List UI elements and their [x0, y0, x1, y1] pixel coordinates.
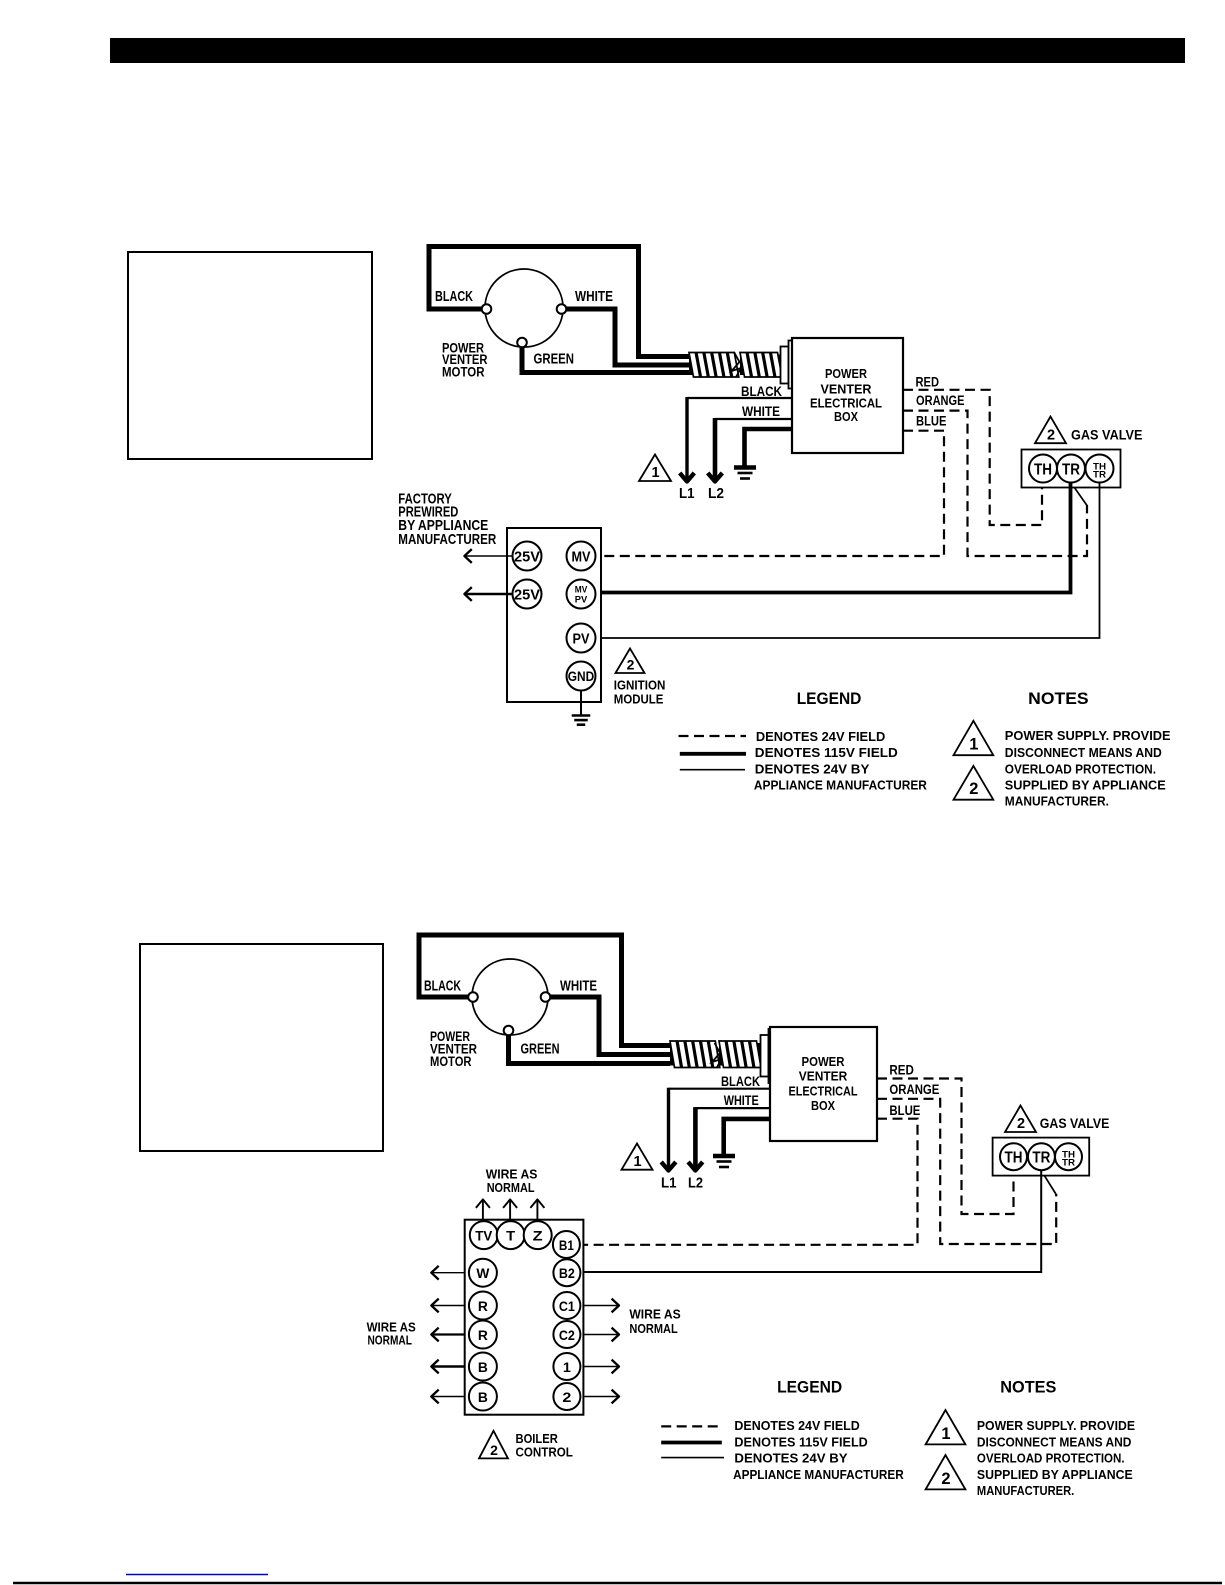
- svg-text:TR: TR: [1093, 470, 1107, 480]
- svg-text:1: 1: [651, 465, 659, 481]
- svg-text:L1: L1: [679, 485, 695, 502]
- svg-text:1: 1: [563, 1360, 572, 1375]
- wire BLACK from motor M2 (115V): [419, 935, 670, 1046]
- svg-text:DENOTES 24V FIELD: DENOTES 24V FIELD: [756, 730, 885, 744]
- wire ground from electrical box 2 (115V): [724, 1119, 770, 1154]
- ground symbol ignition module: [572, 714, 591, 717]
- wire TH/TR to PV (24V appliance): [601, 482, 1100, 638]
- boiler terminal B lower: [469, 1383, 497, 1411]
- svg-text:DENOTES 24V FIELD: DENOTES 24V FIELD: [734, 1419, 859, 1433]
- gas valve 1 terminal TR: [1057, 455, 1085, 483]
- svg-text:WIRE AS: WIRE AS: [486, 1167, 538, 1181]
- svg-text:BLACK: BLACK: [435, 289, 473, 305]
- svg-text:IGNITION: IGNITION: [614, 678, 666, 692]
- note triangle 1 diagram 1 supply: [639, 455, 671, 482]
- boiler terminal R lower: [469, 1321, 497, 1349]
- legend thin sample 2: [661, 1457, 724, 1459]
- svg-text:L1: L1: [661, 1174, 677, 1191]
- wire BLACK supply to L1 (115V): [687, 397, 792, 399]
- svg-text:1: 1: [633, 1154, 641, 1170]
- note triangle 2 boiler control: [479, 1431, 508, 1459]
- wire BLUE dashed 24V field: box2 to boiler control B1: [583, 1119, 917, 1245]
- wire WHITE from motor M2 (115V): [546, 997, 671, 1055]
- svg-text:TR: TR: [1062, 1158, 1076, 1168]
- svg-text:GREEN: GREEN: [534, 352, 575, 368]
- wire RED dashed 24V field: box1 to gas valve TH: [903, 390, 1042, 525]
- arrow factory prewired lower (25V): [465, 593, 513, 595]
- wire GREEN from motor M2 (115V): [509, 1031, 671, 1064]
- svg-text:GND: GND: [568, 669, 595, 684]
- svg-text:WHITE: WHITE: [560, 979, 597, 995]
- svg-text:APPLIANCE MANUFACTURER: APPLIANCE MANUFACTURER: [754, 779, 927, 793]
- motor M2 terminal left: [468, 992, 478, 1002]
- svg-text:POWER: POWER: [802, 1055, 845, 1069]
- wire ORANGE dashed 24V field: box2 toward gas valve TR: [877, 1099, 1056, 1244]
- svg-text:MANUFACTURER.: MANUFACTURER.: [1005, 795, 1109, 809]
- svg-text:BLACK: BLACK: [741, 384, 782, 399]
- svg-text:ORANGE: ORANGE: [889, 1082, 939, 1097]
- notes triangle 1 diagram 2: [926, 1410, 966, 1444]
- gas valve 1 terminal TH: [1029, 455, 1057, 483]
- svg-text:2: 2: [969, 780, 978, 798]
- wire WHITE supply to L2 diagram 2 (115V): [695, 1107, 770, 1109]
- svg-text:NORMAL: NORMAL: [487, 1181, 535, 1195]
- legend thick sample 1: [680, 752, 746, 756]
- svg-text:MOTOR: MOTOR: [430, 1054, 472, 1069]
- ignition module terminal 25V upper: [513, 542, 542, 571]
- wire TR to B2 (24V appliance): [583, 1170, 1041, 1272]
- svg-text:B2: B2: [559, 1266, 575, 1281]
- power venter electrical box 1: [792, 338, 903, 453]
- svg-text:ELECTRICAL: ELECTRICAL: [810, 396, 882, 410]
- svg-text:R: R: [478, 1327, 488, 1343]
- svg-text:GAS VALVE: GAS VALVE: [1040, 1116, 1110, 1131]
- svg-text:DENOTES 24V BY: DENOTES 24V BY: [734, 1452, 848, 1466]
- boiler terminal W: [469, 1259, 497, 1287]
- svg-text:DISCONNECT MEANS AND: DISCONNECT MEANS AND: [1005, 746, 1162, 760]
- arrow wire-as-normal up TV: [482, 1200, 484, 1220]
- svg-text:ELECTRICAL: ELECTRICAL: [789, 1084, 858, 1098]
- svg-text:PV: PV: [573, 631, 590, 647]
- svg-text:ORANGE: ORANGE: [916, 393, 965, 408]
- svg-text:TH: TH: [1034, 462, 1052, 479]
- gas valve 2 terminal TH: [1000, 1143, 1027, 1170]
- svg-text:MOTOR: MOTOR: [442, 364, 485, 379]
- svg-text:LEGEND: LEGEND: [797, 689, 862, 708]
- flexible conduit diagram 1 segment A: [689, 355, 734, 376]
- svg-text:BLUE: BLUE: [916, 414, 947, 429]
- arrow left R lower: [432, 1333, 465, 1335]
- svg-text:BLUE: BLUE: [889, 1103, 920, 1118]
- notes triangle 2 diagram 2: [926, 1455, 966, 1489]
- boiler terminal B upper: [469, 1353, 497, 1381]
- wire BLACK from motor M1 (115V): [429, 247, 689, 357]
- flexible conduit diagram 2 segment A: [670, 1043, 713, 1066]
- svg-text:RED: RED: [916, 373, 940, 389]
- svg-text:25V: 25V: [514, 587, 540, 603]
- wire ORANGE dashed 24V field: box1 toward gas valve TR: [903, 411, 1087, 556]
- arrow L2 diagram 2: [693, 1107, 698, 1168]
- footer rule: [13, 1582, 1222, 1584]
- svg-text:RED: RED: [889, 1062, 914, 1078]
- svg-text:MV: MV: [575, 585, 588, 595]
- svg-text:2: 2: [627, 657, 635, 673]
- svg-text:APPLIANCE MANUFACTURER: APPLIANCE MANUFACTURER: [733, 1468, 904, 1482]
- svg-text:POWER SUPPLY. PROVIDE: POWER SUPPLY. PROVIDE: [977, 1419, 1135, 1433]
- svg-text:MANUFACTURER.: MANUFACTURER.: [977, 1484, 1074, 1498]
- svg-text:B: B: [478, 1359, 488, 1375]
- arrow right C2: [583, 1334, 618, 1336]
- arrow left W: [432, 1272, 465, 1274]
- svg-text:WHITE: WHITE: [724, 1093, 759, 1108]
- svg-text:Z: Z: [533, 1227, 544, 1243]
- svg-text:PV: PV: [575, 594, 588, 604]
- power venter electrical box 2: [770, 1027, 877, 1141]
- svg-text:T: T: [506, 1227, 515, 1243]
- svg-text:25V: 25V: [514, 549, 540, 565]
- wire GND to ground: [580, 691, 582, 716]
- boiler terminal R upper: [469, 1292, 497, 1320]
- boiler terminal 2: [553, 1383, 580, 1410]
- svg-text:TH: TH: [1005, 1150, 1023, 1167]
- svg-text:NORMAL: NORMAL: [629, 1322, 678, 1336]
- svg-text:B: B: [478, 1389, 488, 1405]
- boiler terminal T: [497, 1221, 525, 1249]
- ground symbol at supply 2: [713, 1154, 735, 1159]
- gas valve 2 body: [993, 1138, 1090, 1176]
- conduit connector at electrical box 2: [761, 1035, 769, 1077]
- arrow left R upper: [432, 1305, 465, 1307]
- svg-text:2: 2: [941, 1470, 950, 1488]
- svg-text:NOTES: NOTES: [1000, 1377, 1056, 1396]
- svg-text:2: 2: [490, 1442, 498, 1458]
- boiler terminal 1: [553, 1353, 580, 1380]
- svg-text:MV: MV: [572, 549, 591, 565]
- wire TR to MV/PV (thick): [601, 482, 1071, 593]
- svg-text:WHITE: WHITE: [742, 404, 780, 419]
- arrow right 1: [583, 1366, 618, 1368]
- conduit tear mark diagram 2: [712, 1043, 722, 1068]
- svg-text:DENOTES 115V FIELD: DENOTES 115V FIELD: [734, 1435, 867, 1449]
- svg-text:LEGEND: LEGEND: [777, 1377, 842, 1396]
- svg-text:VENTER: VENTER: [821, 382, 872, 396]
- svg-text:MANUFACTURER: MANUFACTURER: [398, 531, 496, 548]
- ignition module terminal PV: [567, 624, 596, 653]
- legend dashed sample 1: [679, 735, 747, 737]
- power venter motor M2 body: [472, 959, 548, 1035]
- svg-text:CONTROL: CONTROL: [516, 1446, 574, 1460]
- svg-text:BOX: BOX: [834, 410, 859, 424]
- motor M2 terminal bottom: [504, 1026, 514, 1036]
- svg-text:POWER SUPPLY. PROVIDE: POWER SUPPLY. PROVIDE: [1005, 729, 1171, 743]
- svg-text:GREEN: GREEN: [521, 1042, 560, 1058]
- conduit tear mark diagram 1: [732, 352, 742, 377]
- svg-text:L2: L2: [708, 485, 724, 502]
- boiler terminal Z: [524, 1221, 552, 1249]
- arrow L1 diagram 2: [667, 1088, 670, 1169]
- svg-text:1: 1: [941, 1425, 950, 1443]
- svg-text:1: 1: [969, 736, 978, 754]
- arrow factory prewired upper (25V): [465, 555, 513, 557]
- svg-text:SUPPLIED BY APPLIANCE: SUPPLIED BY APPLIANCE: [1005, 779, 1166, 793]
- conduit connector at electrical box 1: [781, 347, 789, 384]
- boiler terminal TV: [470, 1221, 498, 1249]
- notes triangle 1 diagram 1: [954, 721, 994, 755]
- ignition module terminal 25V lower: [513, 580, 542, 609]
- note box (blank) diagram 1: [128, 252, 372, 459]
- svg-text:GAS VALVE: GAS VALVE: [1071, 428, 1143, 443]
- gas valve 2 terminal TH/TR: [1055, 1143, 1082, 1170]
- ignition module terminal MV: [567, 542, 596, 571]
- svg-text:NOTES: NOTES: [1028, 689, 1088, 708]
- wire GREEN from motor M1 (115V): [522, 342, 689, 373]
- svg-text:WIRE AS: WIRE AS: [367, 1321, 416, 1335]
- arrow left B lower: [432, 1396, 465, 1398]
- svg-text:L2: L2: [688, 1174, 703, 1191]
- svg-text:C2: C2: [559, 1328, 575, 1343]
- gas valve 2 terminal TR: [1028, 1143, 1055, 1170]
- legend thin sample 1: [680, 769, 745, 771]
- arrow right C1: [583, 1305, 618, 1307]
- wire WHITE supply to L2 (115V): [715, 418, 792, 420]
- arrow left B upper: [432, 1365, 465, 1367]
- note triangle 2 at gas valve 2: [1005, 1106, 1036, 1133]
- legend thick sample 2: [661, 1441, 722, 1445]
- svg-text:2: 2: [1047, 427, 1055, 443]
- note triangle 2 ignition module: [616, 649, 645, 674]
- footer hyperlink line: [126, 1574, 268, 1576]
- wire RED dashed 24V field: box2 to gas valve TH: [877, 1079, 1014, 1215]
- arrow right 2: [583, 1396, 618, 1398]
- notes triangle 2 diagram 1: [954, 766, 994, 800]
- flexible conduit diagram 1 segment B: [740, 355, 781, 376]
- svg-text:DENOTES 115V FIELD: DENOTES 115V FIELD: [755, 746, 898, 760]
- boiler terminal C1: [553, 1292, 580, 1319]
- ground symbol at supply 1: [734, 465, 756, 470]
- svg-text:B1: B1: [559, 1238, 574, 1253]
- svg-text:W: W: [476, 1265, 490, 1281]
- svg-text:BLACK: BLACK: [721, 1074, 760, 1089]
- boiler terminal C2: [553, 1321, 580, 1348]
- arrow L2 diagram 1: [713, 418, 718, 480]
- svg-text:BOX: BOX: [811, 1099, 836, 1113]
- svg-text:OVERLOAD PROTECTION.: OVERLOAD PROTECTION.: [977, 1452, 1125, 1466]
- ignition module terminal GND: [567, 662, 596, 691]
- boiler terminal B1: [553, 1231, 580, 1258]
- note box (blank) diagram 2: [140, 944, 383, 1151]
- svg-text:R: R: [478, 1298, 488, 1314]
- svg-text:2: 2: [562, 1390, 571, 1405]
- gas valve 1 body: [1022, 450, 1121, 488]
- svg-text:TV: TV: [475, 1227, 493, 1243]
- motor M1 terminal bottom: [517, 338, 527, 348]
- legend dashed sample 2: [661, 1425, 722, 1427]
- wire BLUE dashed 24V field: box1 to ignition module MV: [601, 431, 944, 556]
- wire BLACK supply to L1 diagram 2 (115V): [669, 1088, 771, 1090]
- svg-text:BOILER: BOILER: [516, 1432, 558, 1446]
- arrow L1 diagram 1: [685, 397, 688, 480]
- arrow wire-as-normal up Z: [536, 1200, 538, 1220]
- boiler terminal B2: [553, 1259, 580, 1286]
- svg-text:2: 2: [1017, 1116, 1025, 1132]
- svg-text:OVERLOAD PROTECTION.: OVERLOAD PROTECTION.: [1005, 762, 1156, 776]
- svg-text:BLACK: BLACK: [424, 979, 461, 995]
- svg-text:WHITE: WHITE: [575, 289, 613, 305]
- svg-text:SUPPLIED BY APPLIANCE: SUPPLIED BY APPLIANCE: [977, 1468, 1133, 1482]
- ignition module terminal MV/PV: [567, 580, 596, 609]
- ignition module box: [507, 528, 601, 702]
- note triangle 2 at gas valve 1: [1035, 417, 1066, 444]
- svg-text:TR: TR: [1062, 462, 1080, 479]
- svg-text:VENTER: VENTER: [799, 1070, 848, 1084]
- svg-text:TR: TR: [1032, 1150, 1050, 1167]
- svg-text:WIRE AS: WIRE AS: [629, 1308, 680, 1322]
- wire WHITE from motor M1 (115V): [562, 309, 690, 365]
- gas valve 1 terminal TH/TR: [1086, 455, 1114, 483]
- wire TR jumper diagonal 2 (solid): [1041, 1171, 1056, 1195]
- motor M2 terminal right: [541, 992, 551, 1002]
- svg-text:NORMAL: NORMAL: [368, 1334, 413, 1348]
- boiler control box: [465, 1220, 584, 1415]
- svg-text:DISCONNECT MEANS AND: DISCONNECT MEANS AND: [977, 1435, 1132, 1449]
- note triangle 1 diagram 2 supply: [622, 1144, 653, 1170]
- svg-text:C1: C1: [559, 1299, 575, 1314]
- flexible conduit diagram 2 segment B: [719, 1043, 761, 1066]
- redacted title bar: [110, 38, 1185, 63]
- motor M1 terminal right: [557, 304, 567, 314]
- power venter motor M1 body: [485, 269, 563, 347]
- wire TR jumper diagonal (solid): [1071, 482, 1088, 506]
- svg-text:POWER: POWER: [825, 367, 867, 381]
- svg-text:MODULE: MODULE: [614, 693, 664, 707]
- svg-text:DENOTES 24V BY: DENOTES 24V BY: [755, 762, 870, 776]
- arrow wire-as-normal up T: [509, 1200, 511, 1220]
- wire ground from electrical box 1 (115V): [745, 429, 793, 466]
- motor M1 terminal left: [482, 304, 492, 314]
